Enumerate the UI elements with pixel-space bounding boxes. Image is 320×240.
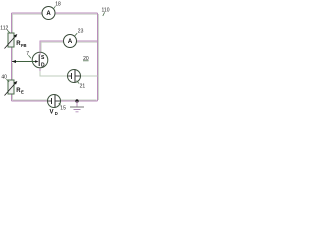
wire bottom left of source VD (12, 100, 48, 102)
battery V21 right stub (75, 75, 81, 77)
gate lead wire (12, 61, 37, 63)
gate arrowhead at channel (35, 60, 39, 63)
node 7 tick (28, 55, 31, 58)
svg-text:40: 40 (1, 75, 7, 81)
battery VD circle (48, 95, 61, 108)
ammeter U23 circle (64, 35, 77, 48)
node 23 tick (75, 33, 78, 36)
svg-text:A: A (46, 11, 51, 17)
svg-text:FB: FB (21, 43, 27, 48)
battery V21 long plate (74, 70, 76, 82)
svg-text:E: E (21, 90, 24, 95)
wire shadow right bus (98, 14, 100, 100)
wire left bus below RE (11, 94, 13, 101)
wire ammeter 23 to right bus (77, 40, 98, 42)
battery VD long plate (54, 95, 56, 107)
battery VD right stub (55, 100, 61, 102)
battery V21 circle (68, 70, 81, 83)
node 112 tick (7, 30, 10, 33)
ground junction dot (75, 99, 78, 102)
ground stub (76, 101, 78, 107)
wire shadow bottom (13, 99, 97, 101)
wire top-left vertical (11, 13, 13, 33)
svg-text:21: 21 (80, 83, 86, 89)
wire shadow top (12, 13, 97, 15)
svg-text:110: 110 (102, 7, 110, 13)
node 40 tick (6, 79, 9, 82)
resistor RE arrow (5, 83, 16, 96)
svg-text:15: 15 (60, 105, 66, 111)
transistor Q1 circle (32, 52, 48, 68)
ammeter U18 circle (42, 7, 55, 20)
wire shadow ammeter23 net (41, 42, 97, 52)
resistor RFB body (8, 33, 14, 47)
svg-text:23: 23 (78, 29, 84, 35)
wire battery 21 to right bus (pale) (81, 75, 98, 77)
node 18 tick (53, 6, 55, 9)
battery V21 short plate (71, 73, 73, 79)
svg-text:D: D (41, 63, 45, 69)
wire transistor source up to ammeter 23 (40, 41, 64, 52)
node 21 tick (77, 81, 80, 84)
svg-text:A: A (68, 39, 73, 45)
battery V21 left stub (68, 75, 72, 77)
node 15 tick (59, 103, 61, 105)
ground bar 1 (70, 106, 84, 108)
node 20 tick (83, 60, 89, 62)
wire bottom right of source VD (61, 100, 98, 102)
wire shadow left bus (12, 14, 14, 100)
resistor RFB arrow (5, 36, 16, 49)
gate arrowhead at left bus (12, 60, 16, 63)
battery VD short plate (51, 98, 53, 104)
svg-text:D: D (55, 111, 58, 116)
ground bar 3 (76, 111, 79, 113)
wire top horizontal right of ammeter (55, 12, 98, 14)
wire transistor drain stub (39, 68, 41, 71)
transistor Q1 channel (38, 55, 40, 67)
wire drain net to battery 21 (pale) (40, 71, 68, 76)
node 110 tick (103, 12, 105, 16)
svg-text:V: V (50, 110, 54, 116)
svg-text:18: 18 (55, 1, 61, 7)
wire left bus between resistors (11, 47, 13, 80)
ground bar 2 (74, 109, 81, 111)
battery VD left stub (48, 100, 52, 102)
wire right bus (97, 13, 99, 101)
wire top horizontal left of ammeter (12, 12, 43, 14)
transistor Q1 top lead inside (39, 53, 41, 55)
resistor RE body (8, 80, 14, 94)
